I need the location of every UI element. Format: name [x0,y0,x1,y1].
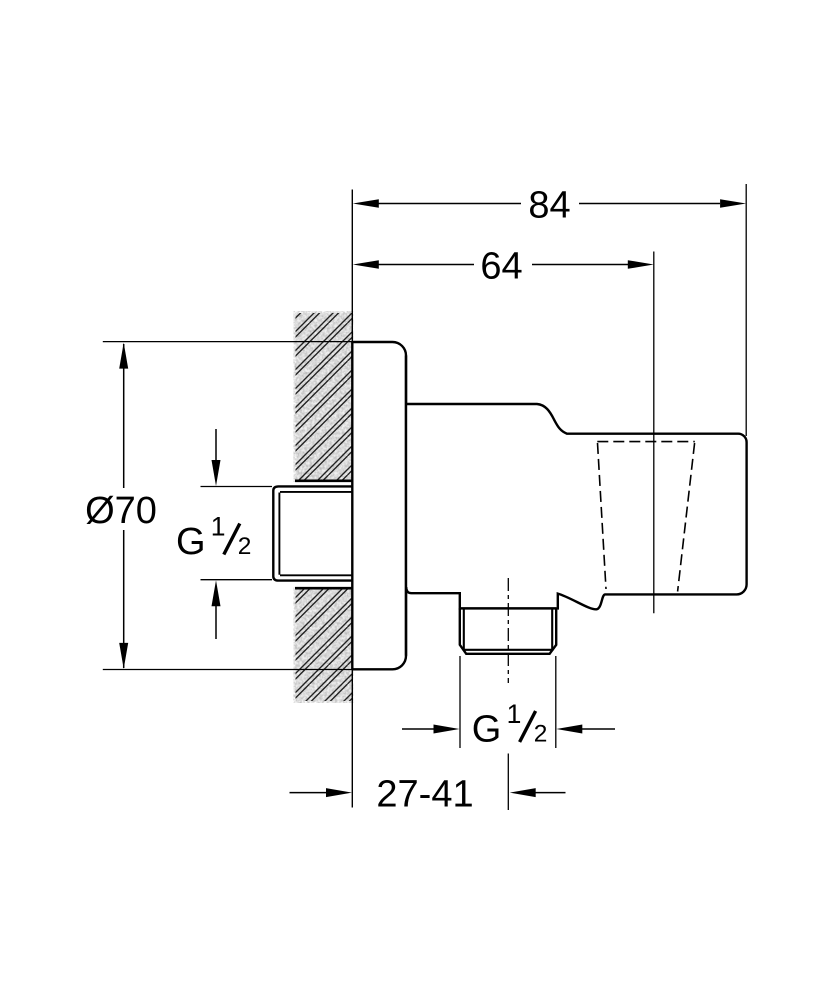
svg-text:G: G [176,521,206,563]
svg-text:1: 1 [211,511,226,541]
flange right edge re-stroke [405,356,407,656]
wall face line [351,190,353,808]
svg-text:2: 2 [534,720,548,747]
svg-text:1: 1 [507,699,522,729]
outlet nut inner edges [463,610,554,650]
wall hole bottom edge [295,587,353,590]
outlet nut top edge [460,607,556,609]
wall hole top edge [295,479,353,482]
inlet nipple G1/2 outline [273,486,351,580]
wall hatch lower band [294,587,354,703]
svg-text:84: 84 [528,184,570,226]
outlet center line [507,578,509,810]
cup center line / 64 extension [653,252,655,614]
handshower cup hidden cone [597,442,695,592]
dimension 84 [353,184,746,436]
dimension 64 [353,246,654,288]
inlet nipple inner edges [279,492,351,575]
dimension diameter 70 [85,342,352,670]
dimension G1/2 outlet [402,656,615,751]
svg-text:G: G [472,709,502,751]
svg-text:2: 2 [238,533,252,560]
svg-text:Ø70: Ø70 [85,490,157,532]
dimension 27-41 [290,773,566,815]
dimension G1/2 inlet [176,429,272,639]
flange (escutcheon) outline [352,342,406,669]
holder arm outline [406,404,747,609]
wall hatch upper band [294,311,354,482]
outlet nut outline [460,608,556,653]
svg-text:64: 64 [480,246,522,288]
svg-text:27-41: 27-41 [376,773,473,815]
